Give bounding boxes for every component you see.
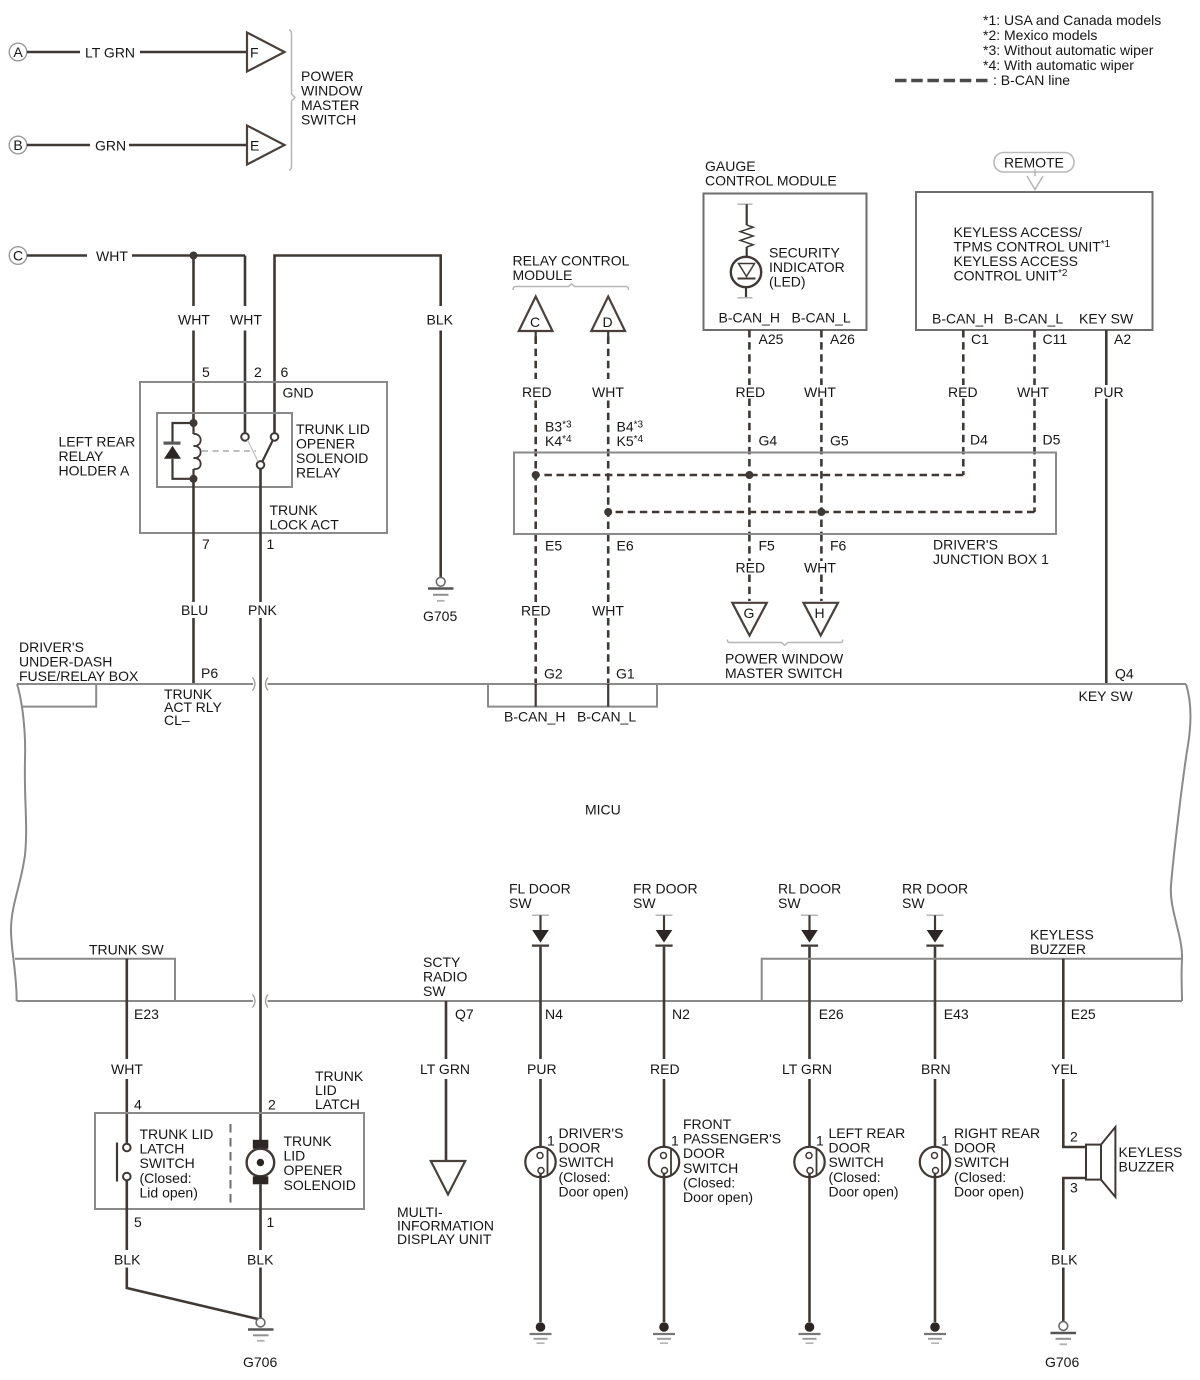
svg-text:SWITCH: SWITCH (301, 112, 356, 128)
svg-text:1: 1 (547, 1133, 555, 1149)
latch box dashed divider (230, 1124, 232, 1206)
svg-text:SOLENOID: SOLENOID (284, 1177, 356, 1193)
relay contact pins (241, 433, 278, 469)
svg-text:3: 3 (1070, 1180, 1078, 1196)
svg-text:FRONT: FRONT (683, 1116, 732, 1132)
svg-text:FUSE/RELAY BOX: FUSE/RELAY BOX (19, 668, 139, 684)
svg-text:1: 1 (941, 1133, 949, 1149)
triangle C (519, 297, 553, 332)
MICU pass-through hooks bottom (253, 995, 269, 1008)
ground left rear door switch (799, 1322, 821, 1343)
wire C WHT horizontal (27, 248, 245, 264)
svg-text:BUZZER: BUZZER (1030, 941, 1086, 957)
front passenger's door switch (649, 1147, 679, 1177)
wire right rear switch to ground (934, 1174, 937, 1322)
svg-text:LATCH: LATCH (315, 1096, 360, 1112)
svg-text:WHT: WHT (1017, 384, 1049, 400)
trunk lid latch box (95, 1113, 364, 1209)
wire left rear switch to ground (808, 1174, 811, 1322)
legend B-CAN dashed sample (895, 79, 990, 82)
svg-text:SWITCH: SWITCH (559, 1154, 614, 1170)
svg-text:DOOR: DOOR (954, 1140, 996, 1156)
svg-text:WHT: WHT (111, 1061, 143, 1077)
svg-text:C1: C1 (971, 331, 989, 347)
svg-text:REMOTE: REMOTE (1004, 155, 1064, 171)
wire trunk sw WHT (111, 959, 143, 1144)
svg-text:MODULE: MODULE (513, 267, 573, 283)
label TRUNK LID OPENER SOLENOID (284, 1133, 356, 1193)
svg-text:G5: G5 (830, 433, 849, 449)
junction dot C (190, 252, 198, 260)
svg-text:BUZZER: BUZZER (1119, 1159, 1175, 1175)
wire solenoid BLK (247, 1184, 274, 1318)
svg-text:WHT: WHT (804, 384, 836, 400)
svg-text:SW: SW (509, 895, 532, 911)
svg-text:B-CAN_H: B-CAN_H (504, 709, 565, 725)
svg-text:F5: F5 (759, 538, 776, 554)
FL door sw arrow (509, 881, 571, 1002)
right rear door switch (920, 1147, 950, 1177)
svg-text:A25: A25 (759, 331, 784, 347)
svg-text:B: B (13, 137, 22, 153)
svg-text:F: F (250, 45, 259, 61)
svg-text:DOOR: DOOR (683, 1145, 725, 1161)
MICU B-CAN bump (488, 684, 657, 725)
relay control module label (513, 253, 630, 284)
wire front passenger switch to ground (663, 1174, 666, 1322)
svg-text:*3: Without automatic wiper: *3: Without automatic wiper (983, 42, 1154, 58)
svg-text:LOCK ACT: LOCK ACT (270, 517, 340, 533)
ground G706 buzzer (1045, 1322, 1079, 1370)
svg-text:OPENER: OPENER (284, 1162, 343, 1178)
svg-text:E43: E43 (944, 1006, 969, 1022)
trunk lid opener solenoid (247, 1140, 275, 1185)
svg-text:RED: RED (736, 384, 766, 400)
label POWER WINDOW MASTER SWITCH lower (725, 651, 844, 682)
svg-text:Door open): Door open) (683, 1189, 753, 1205)
label KEYLESS BUZZER (1119, 1144, 1183, 1175)
relay inner box (157, 413, 292, 487)
svg-text:GND: GND (283, 385, 314, 401)
relay pin labels 7 1 (202, 536, 275, 552)
svg-text:D4: D4 (970, 432, 988, 448)
svg-text:SW: SW (423, 983, 446, 999)
label DRIVER'S UNDER-DASH FUSE/RELAY BOX (19, 639, 139, 684)
svg-text:2: 2 (1070, 1129, 1078, 1145)
triangle F (247, 33, 285, 72)
label DRIVER'S DOOR SWITCH (559, 1125, 629, 1199)
svg-text:GRN: GRN (95, 138, 126, 154)
svg-text:*4: With automatic wiper: *4: With automatic wiper (983, 57, 1134, 73)
svg-text:TRUNK: TRUNK (284, 1133, 333, 1149)
svg-text:E23: E23 (134, 1006, 159, 1022)
wire E43 BRN (921, 1001, 951, 1152)
svg-text:LATCH: LATCH (140, 1141, 185, 1157)
svg-text:BLK: BLK (247, 1252, 274, 1268)
label pin 2 solenoid (268, 1097, 276, 1113)
svg-text:P6: P6 (201, 665, 218, 681)
MICU box torn outline (11, 684, 1190, 1001)
svg-text:1: 1 (267, 536, 275, 552)
svg-text:Door open): Door open) (954, 1183, 1024, 1199)
MICU bottom-right notch KEYLESS BUZZER (762, 927, 1183, 1002)
svg-text:F6: F6 (830, 538, 847, 554)
wire A26 WHT dashed (804, 330, 849, 601)
label TRUNK LID OPENER SOLENOID RELAY (296, 421, 370, 481)
svg-text:MASTER SWITCH: MASTER SWITCH (725, 665, 842, 681)
wire pin2 WHT (230, 256, 262, 434)
triangle G (732, 603, 767, 636)
label POWER WINDOW MASTER SWITCH (301, 68, 363, 128)
svg-text:DOOR: DOOR (829, 1140, 871, 1156)
legend notes (983, 12, 1161, 88)
gauge control module box (704, 194, 867, 331)
svg-text:B-CAN_H: B-CAN_H (932, 311, 993, 327)
svg-text:WHT: WHT (178, 312, 210, 328)
svg-text:G2: G2 (544, 666, 563, 682)
svg-text:RELAY: RELAY (296, 465, 342, 481)
svg-text:PUR: PUR (527, 1061, 557, 1077)
svg-text:C11: C11 (1043, 331, 1068, 347)
svg-text:(Closed:: (Closed: (829, 1169, 881, 1185)
wire N4 PUR (527, 1001, 557, 1152)
label SCTY RADIO SW (423, 954, 467, 999)
svg-text:TRUNK SW: TRUNK SW (89, 942, 164, 958)
svg-text:CONTROL MODULE: CONTROL MODULE (705, 173, 837, 189)
wire A LT GRN (27, 45, 246, 61)
wire buzzer pin3 BLK (1051, 1178, 1086, 1322)
ground right rear door switch (924, 1322, 946, 1343)
MICU bottom-left notch TRUNK SW (15, 942, 175, 1002)
svg-text:Q4: Q4 (1115, 666, 1134, 682)
svg-text:BRN: BRN (921, 1061, 951, 1077)
RR door sw arrow (902, 881, 968, 1002)
svg-text:B-CAN_L: B-CAN_L (577, 709, 636, 725)
svg-text:1: 1 (267, 1214, 275, 1230)
wire Q7 LT GRN (420, 1001, 470, 1161)
svg-text:KEY SW: KEY SW (1079, 311, 1134, 327)
svg-text:DRIVER'S: DRIVER'S (559, 1125, 624, 1141)
label MULTI-INFORMATION DISPLAY UNIT (397, 1204, 494, 1247)
svg-text:G: G (744, 605, 755, 621)
svg-text:SWITCH: SWITCH (140, 1155, 195, 1171)
flyback diode (164, 423, 194, 479)
svg-text:B-CAN_H: B-CAN_H (719, 310, 780, 326)
svg-text:PUR: PUR (1094, 384, 1124, 400)
svg-text:E25: E25 (1071, 1006, 1096, 1022)
svg-text:Door open): Door open) (829, 1183, 899, 1199)
svg-text:A26: A26 (830, 331, 855, 347)
wire E25 YEL (1051, 959, 1086, 1147)
svg-text:LT GRN: LT GRN (420, 1061, 470, 1077)
svg-text:1: 1 (816, 1133, 824, 1149)
label P6 TRUNK ACT RLY CL (164, 665, 222, 728)
MICU bottom pin labels (134, 1006, 1096, 1022)
triangle H (804, 603, 839, 636)
wire pin5 WHT (178, 256, 210, 424)
relay control module bracket (513, 284, 629, 290)
label Q4 KEY SW (1079, 666, 1134, 705)
keyless access box (916, 192, 1153, 330)
svg-text:G705: G705 (423, 608, 457, 624)
svg-text:E6: E6 (617, 538, 634, 554)
relay outer box left rear relay holder A (140, 382, 387, 533)
label RIGHT REAR DOOR SWITCH (954, 1125, 1040, 1199)
svg-text:(Closed:: (Closed: (559, 1169, 611, 1185)
svg-text:PASSENGER'S: PASSENGER'S (683, 1131, 781, 1147)
svg-text:RED: RED (521, 603, 551, 619)
svg-text:*1: USA and Canada models: *1: USA and Canada models (983, 12, 1161, 28)
wire A25 RED dashed (736, 330, 778, 601)
label TRUNK LOCK ACT (270, 502, 340, 533)
svg-text:DISPLAY UNIT: DISPLAY UNIT (397, 1231, 492, 1247)
wire D WHT dashed B4 K5 (592, 331, 644, 684)
svg-text:BLU: BLU (181, 602, 208, 618)
wire B GRN (27, 138, 246, 154)
FR door sw arrow (633, 881, 698, 1002)
driver's junction box 1 (514, 453, 1056, 568)
svg-text:MICU: MICU (585, 802, 621, 818)
svg-text:C: C (13, 248, 23, 264)
svg-text:N2: N2 (672, 1006, 690, 1022)
svg-text:G706: G706 (243, 1354, 277, 1370)
label TRUNK LID LATCH (315, 1068, 364, 1112)
keyless pin labels (971, 331, 1131, 347)
svg-text:H: H (815, 605, 825, 621)
svg-text:E5: E5 (545, 538, 562, 554)
svg-text:B-CAN_L: B-CAN_L (1004, 311, 1063, 327)
svg-text:LEFT REAR: LEFT REAR (829, 1125, 906, 1141)
left rear door switch (794, 1147, 824, 1177)
svg-text:RIGHT REAR: RIGHT REAR (954, 1125, 1040, 1141)
latch pin labels 5 1 (134, 1214, 275, 1230)
label LEFT REAR DOOR SWITCH (829, 1125, 906, 1199)
svg-text:SWITCH: SWITCH (683, 1160, 738, 1176)
svg-text:RED: RED (522, 384, 552, 400)
wire C11 WHT dashed (1017, 330, 1061, 512)
svg-text:RED: RED (736, 560, 766, 576)
svg-text:WHT: WHT (96, 248, 128, 264)
B-CAN upper bus dashed (532, 471, 964, 479)
wire N2 RED (650, 1001, 680, 1152)
svg-text:CL–: CL– (164, 712, 190, 728)
security indicator LED (731, 257, 761, 298)
ground G706 trunk (243, 1318, 277, 1370)
svg-text:D5: D5 (1043, 432, 1061, 448)
remote arrow (1027, 169, 1043, 190)
wire pin7 BLU (181, 479, 208, 684)
MICU top-left notch (21, 684, 96, 707)
svg-text:(Closed:: (Closed: (954, 1169, 1006, 1185)
svg-text:SWITCH: SWITCH (829, 1154, 884, 1170)
svg-text:SWITCH: SWITCH (954, 1154, 1009, 1170)
svg-text:WHT: WHT (592, 384, 624, 400)
svg-text:LT GRN: LT GRN (782, 1061, 832, 1077)
svg-text:Door open): Door open) (559, 1183, 629, 1199)
triangle E (247, 126, 285, 165)
svg-text:DOOR: DOOR (559, 1140, 601, 1156)
svg-text:PNK: PNK (248, 602, 277, 618)
ground G705 (423, 577, 457, 624)
label TRUNK LID LATCH SWITCH (140, 1126, 214, 1200)
wire C1 RED dashed (948, 330, 988, 475)
wire driver's door switch to ground (539, 1174, 542, 1322)
svg-text:2: 2 (254, 364, 262, 380)
trunk lid latch switch (117, 1143, 131, 1182)
svg-text:4: 4 (134, 1097, 142, 1113)
svg-text:RED: RED (948, 384, 978, 400)
REMOTE bubble (994, 153, 1074, 173)
keyless buzzer symbol (1086, 1127, 1115, 1197)
svg-text:SW: SW (902, 895, 925, 911)
coil junction dots (190, 419, 198, 483)
svg-text:JUNCTION BOX 1: JUNCTION BOX 1 (933, 551, 1049, 567)
svg-text:TRUNK LID: TRUNK LID (140, 1126, 214, 1142)
bracket power window master switch lower (727, 640, 842, 646)
label LEFT REAR RELAY HOLDER A (59, 434, 136, 479)
svg-text:G1: G1 (616, 666, 635, 682)
keyless access labels (932, 224, 1134, 327)
relay coil (194, 423, 201, 479)
svg-text:N4: N4 (545, 1006, 563, 1022)
B-CAN lower bus dashed (604, 508, 1034, 516)
MICU pass-through hooks top (253, 678, 269, 691)
svg-text:WHT: WHT (592, 603, 624, 619)
svg-text:(Closed:: (Closed: (140, 1170, 192, 1186)
svg-text:6: 6 (281, 364, 289, 380)
relay pin labels 5 2 6 GND (202, 364, 314, 401)
svg-text:Q7: Q7 (455, 1006, 474, 1022)
svg-text:RED: RED (650, 1061, 680, 1077)
label FRONT PASSENGER'S DOOR SWITCH (683, 1116, 781, 1205)
svg-text:YEL: YEL (1051, 1061, 1078, 1077)
svg-text:Lid open): Lid open) (140, 1184, 198, 1200)
svg-text:*2: Mexico models: *2: Mexico models (983, 27, 1097, 43)
label SECURITY INDICATOR LED (769, 245, 845, 290)
svg-text:BLK: BLK (427, 312, 454, 328)
svg-text:WHT: WHT (804, 560, 836, 576)
svg-text:BLK: BLK (1051, 1252, 1078, 1268)
svg-text:WHT: WHT (230, 312, 262, 328)
RL door sw arrow (778, 881, 841, 1002)
wire latch BLK (114, 1180, 258, 1319)
svg-text:5: 5 (202, 364, 210, 380)
security indicator resistor (738, 204, 754, 257)
svg-text:D: D (603, 314, 613, 330)
ground front passenger door switch (653, 1322, 675, 1343)
svg-text:E26: E26 (819, 1006, 844, 1022)
driver's door switch (525, 1147, 555, 1177)
wire pin1 PNK (248, 469, 277, 1140)
svg-text:G4: G4 (759, 433, 778, 449)
label MICU (585, 802, 621, 818)
svg-text:SW: SW (778, 895, 801, 911)
bracket power window master switch (289, 30, 295, 170)
svg-text:B-CAN_L: B-CAN_L (792, 310, 851, 326)
wire C RED dashed B3 K4 (521, 331, 572, 684)
svg-text:HOLDER A: HOLDER A (59, 463, 130, 479)
svg-text:7: 7 (202, 536, 210, 552)
triangle D (591, 297, 625, 332)
svg-text:G706: G706 (1045, 1354, 1079, 1370)
svg-text:LT GRN: LT GRN (85, 45, 135, 61)
svg-text:E: E (250, 138, 259, 154)
svg-text:A: A (13, 44, 23, 60)
wire A2 KEY SW PUR (1094, 330, 1124, 684)
wire E26 LT GRN (782, 1001, 832, 1152)
ground driver's door switch (530, 1322, 552, 1343)
svg-text:2: 2 (268, 1097, 276, 1113)
svg-text:C: C (530, 314, 540, 330)
relay link dashed (202, 450, 256, 452)
svg-text:CONTROL UNIT*2: CONTROL UNIT*2 (954, 268, 1068, 284)
svg-text:: B-CAN line: : B-CAN line (993, 72, 1070, 88)
gauge B-CAN labels (719, 310, 856, 348)
svg-text:LID: LID (284, 1148, 306, 1164)
wire pin6 BLK to G705 (275, 256, 454, 578)
svg-text:KEY SW: KEY SW (1079, 688, 1134, 704)
connector C (9, 247, 27, 265)
gauge control module title (705, 158, 837, 189)
svg-text:BLK: BLK (114, 1252, 141, 1268)
multi-information display unit triangle (431, 1161, 465, 1195)
svg-text:5: 5 (134, 1214, 142, 1230)
svg-text:(Closed:: (Closed: (683, 1174, 735, 1190)
svg-text:1: 1 (671, 1133, 679, 1149)
svg-text:SW: SW (633, 895, 656, 911)
connector A (9, 43, 27, 61)
svg-text:(LED): (LED) (769, 274, 806, 290)
svg-text:A2: A2 (1114, 331, 1131, 347)
connector B (9, 136, 27, 154)
